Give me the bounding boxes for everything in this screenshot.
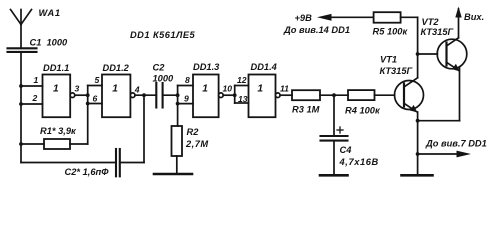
svg-text:1: 1 [112,84,118,95]
ground VT [402,174,433,177]
wire R1 left [21,143,44,145]
wire feedback down from DD1.2 out [143,95,145,162]
wire DD1.2 output [135,94,156,96]
svg-text:10: 10 [223,83,233,93]
resistor R2 [172,126,183,156]
svg-text:1: 1 [34,75,39,85]
resistor R3 [292,90,320,100]
node DD1.3 in [176,93,180,97]
node to pin 7 [416,152,420,156]
svg-text:C2* 1,6пФ: C2* 1,6пФ [65,167,110,177]
svg-text:9: 9 [184,93,189,103]
resistor R4 [348,90,375,100]
plus mark C4 [337,127,343,133]
wire C4 riser [333,95,335,136]
wire R3 to node [320,94,348,96]
svg-text:DD1.4: DD1.4 [251,62,278,72]
svg-text:1: 1 [53,84,59,95]
wire VT2 emitter down [459,68,461,121]
op-amp gate DD1.3 [193,75,219,118]
capacitor C2 series [156,83,162,108]
wire junction column DD1.4 inputs [234,86,236,104]
svg-text:3: 3 [75,83,80,93]
svg-text:R1* 3,9к: R1* 3,9к [40,126,77,136]
node DD1.3 out [233,93,237,97]
wire junction column DD1.2 inputs down to R1 [87,86,89,145]
svg-text:DD1.3: DD1.3 [193,62,220,72]
wire pin 13 [235,102,249,104]
node pin9 tap [176,102,180,106]
svg-text:+9В: +9В [295,13,313,23]
wire VT1 emitter down [417,112,419,175]
svg-text:DD1.2: DD1.2 [103,63,130,73]
wire C4 to ground [333,141,335,175]
wire C2 to DD1.3 inputs [163,94,178,96]
wire pin 9 [178,103,193,105]
svg-text:C2: C2 [153,62,166,72]
capacitor C4 polarized [321,136,348,141]
transistor VT1 [395,78,424,113]
inversion bubble DD1.4 pin11 [276,93,281,98]
wire bottom feedback right [120,162,144,164]
svg-text:КТ315Г: КТ315Г [421,27,455,37]
svg-text:C1: C1 [30,37,42,47]
wire pin1 [21,85,43,87]
capacitor C2* series [116,149,120,176]
inversion bubble DD1.1 pin3 [70,93,75,98]
node input pin2 [19,102,23,106]
svg-text:До вив.14 DD1: До вив.14 DD1 [283,25,350,35]
node DD1.2 out [142,93,146,97]
svg-text:1000: 1000 [47,37,69,47]
svg-text:VT2: VT2 [422,17,440,27]
wire emitter bridge [418,120,460,122]
svg-text:R3 1M: R3 1M [292,105,320,115]
power +9V arrow [317,14,374,21]
node input pin1 [19,84,23,88]
svg-text:2,7М: 2,7М [185,139,209,149]
capacitor C1 [8,48,37,52]
svg-text:4,7х16В: 4,7х16В [339,157,379,167]
node emitter join [416,119,420,123]
wire pin 5 [88,85,102,87]
wire riser to VT1 collector [417,17,419,77]
arrow to pin 7 DD1 [418,151,471,158]
op-amp gate DD1.1 [43,75,71,118]
wire R4 to VT1 base [375,94,395,96]
output arrow Vyh [455,7,461,18]
svg-text:6: 6 [93,93,98,103]
svg-text:Вих.: Вих. [464,12,484,22]
svg-text:R5 100к: R5 100к [373,27,409,37]
wire VT2 collector to output [458,9,460,38]
wire junction column DD1.3 inputs [177,86,179,127]
wire DD1.3 output [223,94,235,96]
svg-text:R4 100к: R4 100к [345,106,381,116]
node C4 tap [332,93,336,97]
svg-text:1000: 1000 [153,73,175,83]
node DD1.1 out [86,93,90,97]
antenna WA1 [11,10,32,25]
svg-text:C4: C4 [340,145,353,155]
wire left input column [20,52,22,163]
inversion bubble DD1.3 pin10 [219,93,224,98]
wire pin2 [21,103,43,105]
svg-text:13: 13 [238,94,248,104]
ground R2 [154,173,192,176]
resistor R5 [374,12,401,23]
svg-text:12: 12 [237,75,247,85]
resistor R1 feedback [44,139,70,149]
wire R1 right [70,143,88,145]
svg-text:1: 1 [202,84,208,95]
svg-text:WA1: WA1 [39,8,61,18]
svg-text:4: 4 [134,85,140,95]
svg-text:5: 5 [95,75,100,85]
wire pin 12 [235,85,249,87]
op-amp gate DD1.4 [249,75,276,118]
wire R5 to riser [401,16,418,18]
op-amp gate DD1.2 [102,75,130,118]
svg-text:КТ315Г: КТ315Г [380,66,414,76]
svg-text:VT1: VT1 [380,54,397,64]
wire DD1.1 output [75,94,88,96]
wire pin 6 [88,103,102,105]
svg-text:R2: R2 [187,127,200,137]
svg-text:До вив.7 DD1: До вив.7 DD1 [425,139,487,149]
node VT2 base tap [416,52,420,56]
wire bottom feedback left [21,162,116,164]
wire DD1.4 output to R3 [280,94,292,96]
svg-text:DD1 К561ЛЕ5: DD1 К561ЛЕ5 [130,30,195,40]
ground C4 [320,174,348,177]
wire R2 to ground [176,156,178,174]
svg-text:1: 1 [257,84,263,95]
wire pin 8 [178,85,193,87]
wire VT2 base [418,53,438,55]
svg-text:11: 11 [280,83,289,93]
node pin6 tap [86,102,90,106]
svg-text:8: 8 [185,75,190,85]
inversion bubble DD1.2 pin4 [130,93,135,98]
svg-text:DD1.1: DD1.1 [43,63,69,73]
node R1 left [19,142,23,146]
transistor VT2 [437,38,467,71]
wire antenna to C1 [20,25,22,49]
svg-text:2: 2 [32,93,38,103]
